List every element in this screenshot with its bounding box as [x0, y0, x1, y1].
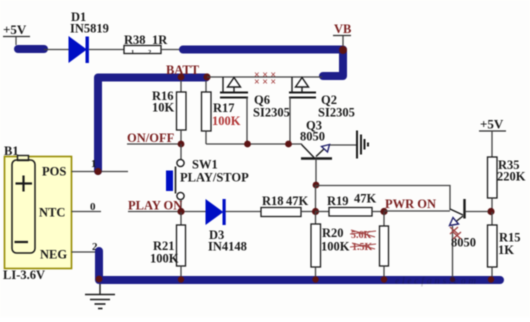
junction PLAY ON — [177, 208, 184, 215]
diode D1 — [69, 10, 109, 63]
ground (bottom left) — [85, 284, 115, 309]
svg-text:100K: 100K — [150, 252, 179, 266]
svg-text:PLAY/STOP: PLAY/STOP — [180, 171, 249, 185]
resistor R38 1R — [124, 33, 168, 56]
junction R21 at bus — [178, 276, 184, 282]
diode D3 IN4148 — [206, 199, 247, 254]
battery B1 — [3, 144, 72, 282]
junction gate net at Q2 — [285, 141, 292, 148]
junction R15 at bus — [488, 276, 494, 282]
junction R18/R19/R20/Q3 — [312, 208, 319, 215]
svg-text:8050: 8050 — [300, 130, 325, 144]
wire +5V thick stub — [18, 45, 44, 53]
svg-text:47K: 47K — [354, 192, 377, 206]
svg-text:1R: 1R — [152, 33, 168, 47]
svg-text:PLAY ON: PLAY ON — [128, 199, 182, 213]
junction NEG corner — [96, 276, 103, 283]
deleted marks (red X) above rail — [254, 70, 279, 88]
svg-text:PWR ON: PWR ON — [385, 197, 436, 211]
junction R20 at bus — [312, 276, 318, 282]
junction at BATT bus end / R17 — [203, 73, 210, 80]
svg-text:SI2305: SI2305 — [318, 106, 355, 120]
deleted value marks (red) — [350, 230, 376, 253]
svg-text:100K: 100K — [321, 240, 350, 254]
pin NEG (2) — [72, 241, 100, 253]
wire D1 to R38 — [89, 49, 124, 51]
svg-text:1: 1 — [131, 49, 134, 56]
junction Q3 collector — [313, 182, 320, 189]
wire thick NEG down + bottom ground bus — [99, 251, 500, 280]
svg-text:R38: R38 — [124, 33, 146, 47]
node VB — [333, 22, 351, 54]
junction deleted resistor at bus — [381, 276, 387, 282]
transistor Q6 SI2305 — [220, 77, 290, 144]
svg-text:R18: R18 — [262, 194, 284, 208]
node +5V (top left) — [3, 22, 30, 45]
svg-text:LI-3.6V: LI-3.6V — [3, 268, 45, 282]
wire Q3 collector down — [315, 185, 317, 212]
pin POS (1) — [72, 158, 129, 172]
resistor R17 100K — [202, 81, 241, 144]
junction emitter at bus — [450, 277, 455, 282]
svg-text:R17: R17 — [213, 101, 235, 115]
wire thick BATT vertical + bus — [98, 78, 206, 172]
svg-text:IN5819: IN5819 — [70, 22, 109, 36]
ground (rotated, at Q3 emitter) — [357, 131, 368, 159]
svg-text:1K: 1K — [498, 243, 514, 257]
svg-text:IN4148: IN4148 — [208, 240, 247, 254]
svg-text:SI2305: SI2305 — [253, 106, 290, 120]
junction POS / battery feed — [94, 168, 101, 175]
deleted designator marks (red X) — [450, 227, 461, 239]
svg-text:R20: R20 — [322, 226, 344, 240]
transistor 8050 (right, deleted designator) — [450, 199, 489, 277]
svg-text:e l e c f a n s . c o m: e l e c f a n s . c o m — [395, 276, 476, 287]
wire thick top bus to VB corner down to Q2 — [183, 50, 343, 77]
svg-text:100K: 100K — [212, 114, 241, 128]
svg-text:R19: R19 — [327, 194, 349, 208]
resistor R20 100K — [311, 212, 350, 279]
wire D3 to R18 — [226, 211, 262, 213]
wire R18 to junction — [301, 211, 315, 213]
resistor R18 47K — [261, 194, 309, 217]
svg-text:ON/OFF: ON/OFF — [127, 131, 175, 145]
svg-text:1: 1 — [91, 158, 97, 170]
svg-text:POS: POS — [42, 165, 66, 179]
svg-text:47K: 47K — [286, 194, 309, 208]
svg-text:220K: 220K — [497, 170, 526, 184]
svg-text:+5V: +5V — [480, 117, 504, 132]
junction ON/OFF at R16 bottom — [178, 141, 185, 148]
resistor (deleted, unlabelled) — [380, 212, 389, 279]
svg-text:2: 2 — [148, 49, 151, 56]
resistor R15 1K — [488, 212, 521, 279]
node +5V (right) — [479, 117, 506, 158]
junction on BATT bus at R16 — [178, 74, 185, 81]
junction R35/R15/base — [487, 208, 494, 215]
svg-text:NTC: NTC — [39, 206, 65, 220]
resistor R19 47K — [315, 192, 384, 217]
switch SW1 PLAY/STOP — [166, 144, 249, 212]
junction R19 / PWR ON — [380, 208, 387, 215]
wire gate net R17/Q6/Q2 to Q3 base — [206, 143, 302, 145]
wire collector net to right transistor — [316, 186, 450, 211]
svg-text:VB: VB — [334, 22, 351, 36]
wire source rail BATT to Q2 — [207, 76, 322, 78]
svg-text:NEG: NEG — [40, 248, 67, 262]
pin NTC (0) — [72, 201, 102, 213]
resistor R16 10K — [152, 81, 186, 144]
node PWR ON — [384, 197, 450, 211]
node PLAY ON — [128, 199, 206, 213]
svg-text:SW1: SW1 — [192, 158, 218, 172]
resistor R35 220K — [488, 157, 526, 211]
svg-text:×××: ××× — [254, 77, 279, 88]
wire stub to D1 anode — [44, 49, 70, 51]
wire R38 to top bus — [161, 49, 182, 51]
transistor Q3 8050 — [300, 119, 356, 186]
node ON/OFF — [127, 131, 181, 145]
junction gate net at Q6 — [244, 141, 251, 148]
svg-text:+5V: +5V — [3, 22, 27, 37]
resistor R21 100K — [150, 212, 186, 279]
transistor Q2 SI2305 — [289, 77, 355, 144]
svg-text:10K: 10K — [152, 101, 175, 115]
